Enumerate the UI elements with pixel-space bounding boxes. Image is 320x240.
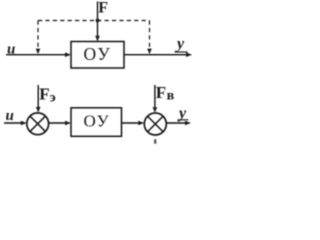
svg-text:ОУ: ОУ [84,112,111,131]
svg-text:F: F [156,83,166,102]
svg-text:y: y [175,36,185,53]
svg-text:F: F [98,0,108,16]
svg-text:u: u [7,42,15,58]
svg-text:э: э [50,91,56,106]
svg-text:ОУ: ОУ [84,44,112,64]
svg-text:F: F [39,85,49,104]
svg-text:y: y [177,105,187,122]
svg-text:u: u [6,108,14,124]
svg-text:в: в [167,89,175,104]
